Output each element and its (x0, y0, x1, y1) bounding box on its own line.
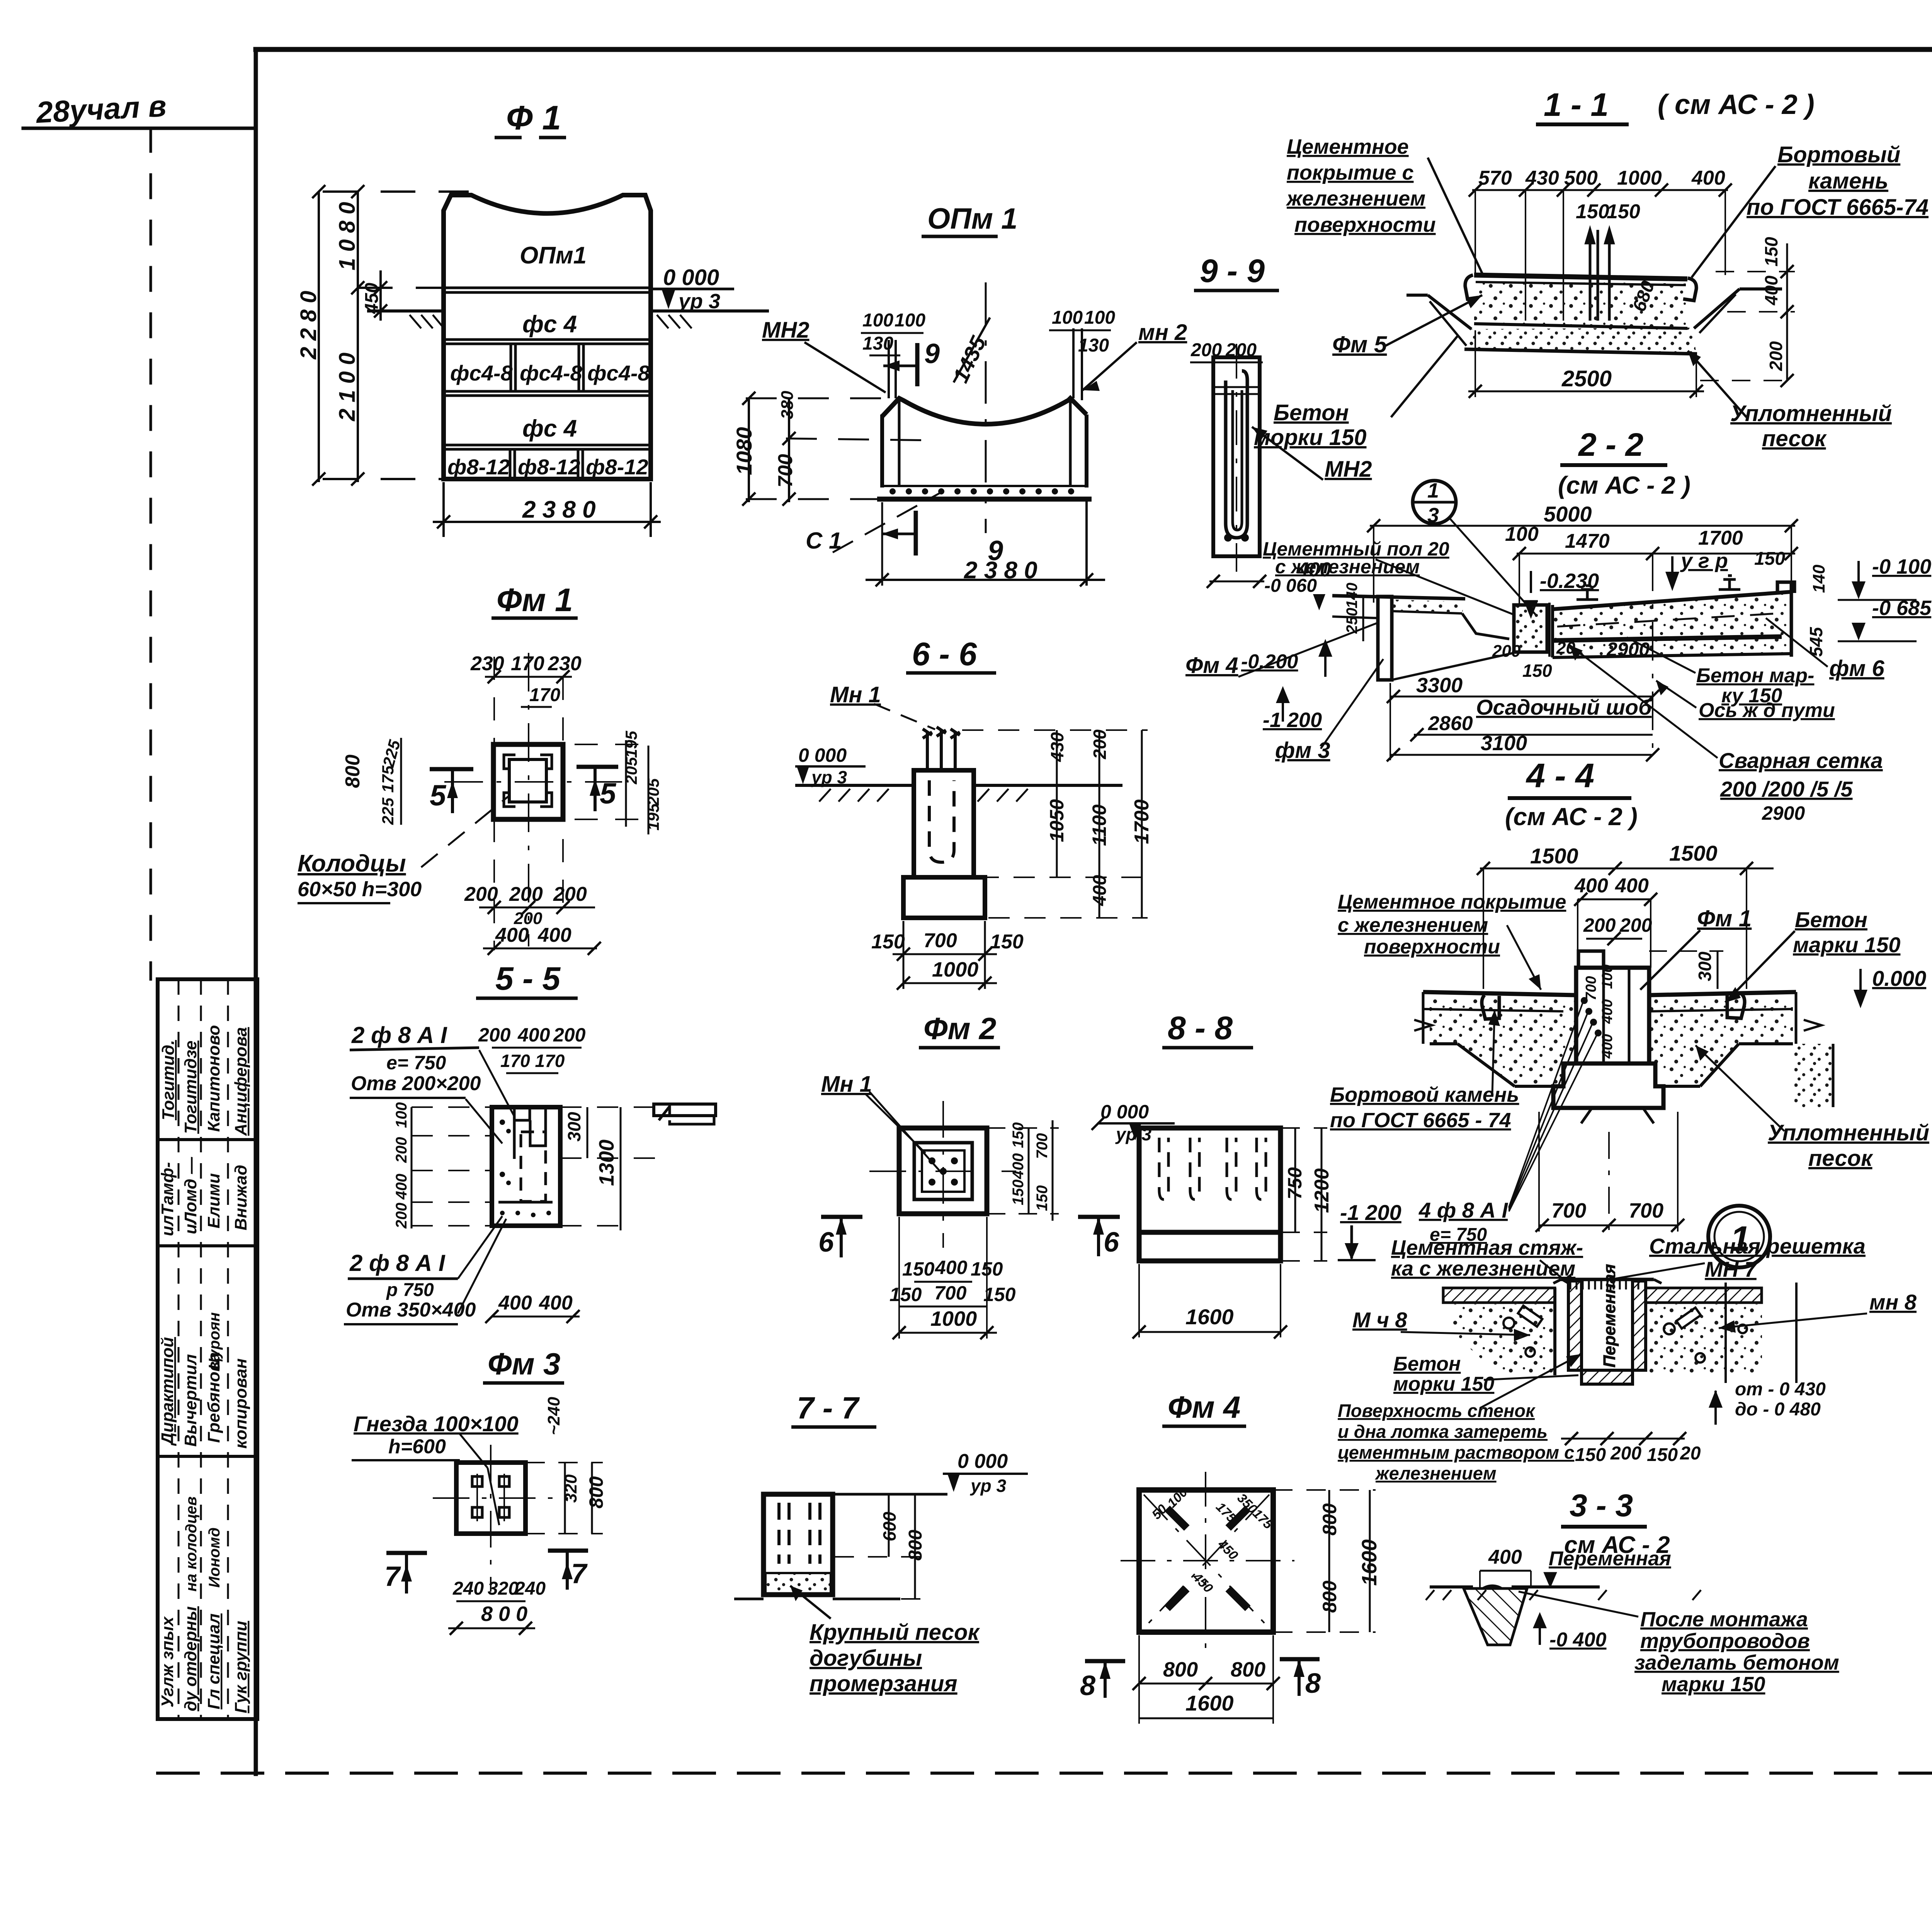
svg-text:до - 0 480: до - 0 480 (1735, 1399, 1821, 1420)
svg-text:400: 400 (393, 1174, 410, 1200)
Fm2 anchor dots (929, 1157, 958, 1186)
svg-text:Переменная: Переменная (1549, 1548, 1671, 1570)
svg-text:150: 150 (990, 931, 1024, 953)
Fm3 section mark 7 right (548, 1551, 588, 1590)
svg-text:Иономд: Иономд (206, 1527, 223, 1588)
svg-text:200: 200 (1766, 341, 1786, 371)
svg-text:Цементная стяж-: Цементная стяж- (1391, 1236, 1583, 1259)
svg-text:1080: 1080 (732, 427, 756, 475)
svg-text:Бетон: Бетон (1795, 907, 1867, 932)
Fm3 centerlines (433, 1445, 568, 1592)
svg-text:700: 700 (1034, 1133, 1051, 1159)
drawing F1 title (495, 99, 577, 138)
svg-text:9: 9 (924, 338, 940, 369)
drain detail label stalnaya reshetka MN7 (1611, 1234, 1866, 1281)
svg-text:1050: 1050 (1046, 799, 1068, 842)
svg-text:700: 700 (1551, 1199, 1586, 1222)
svg-text:Крупный песок: Крупный песок (810, 1620, 980, 1645)
svg-text:Уплотненный: Уплотненный (1768, 1120, 1929, 1145)
svg-text:195: 195 (644, 803, 662, 831)
svg-text:200: 200 (1190, 340, 1222, 360)
drawing Fm2 plan title (919, 1011, 1000, 1048)
svg-text:морки 150: морки 150 (1393, 1373, 1494, 1395)
svg-text:Мн 1: Мн 1 (830, 682, 881, 707)
svg-text:9 - 9: 9 - 9 (1200, 253, 1265, 289)
1-1 label Fm5 (1332, 295, 1482, 357)
svg-text:170: 170 (511, 652, 544, 675)
4-4 label cement pokrytie (1338, 891, 1566, 990)
svg-text:Уплотненный: Уплотненный (1730, 401, 1892, 426)
svg-text:5000: 5000 (1544, 502, 1592, 526)
svg-text:240: 240 (452, 1578, 484, 1599)
9-9 top dim 200 200 (1190, 340, 1263, 572)
svg-text:150: 150 (1010, 1179, 1027, 1205)
svg-text:100: 100 (393, 1102, 410, 1128)
F1 joint line 3 (444, 390, 651, 393)
svg-text:130: 130 (1078, 335, 1109, 356)
svg-text:8: 8 (1305, 1668, 1321, 1699)
svg-text:3 - 3: 3 - 3 (1570, 1488, 1633, 1523)
svg-text:450: 450 (1215, 1537, 1241, 1563)
svg-text:ф8-12: ф8-12 (518, 455, 580, 479)
svg-text:Тогитид.: Тогитид. (159, 1040, 178, 1120)
svg-text:Отв 200×200: Отв 200×200 (351, 1072, 481, 1095)
svg-text:1470: 1470 (1565, 530, 1610, 552)
2-2 dim 3100 (1387, 683, 1659, 761)
Fm1 plan bottom dims (464, 883, 601, 955)
F1 joint line 1 (444, 287, 651, 289)
svg-text:Гук группи: Гук группи (231, 1621, 250, 1713)
svg-text:400: 400 (1010, 1153, 1027, 1179)
svg-text:150: 150 (1010, 1122, 1027, 1148)
svg-text:400: 400 (1615, 875, 1649, 897)
svg-text:Ось ж д пути: Ось ж д пути (1699, 699, 1835, 722)
svg-text:800: 800 (1163, 1658, 1198, 1681)
svg-text:МН2: МН2 (762, 318, 809, 343)
stamp column rotated signatures (158, 1025, 276, 1713)
svg-text:400: 400 (1599, 999, 1616, 1024)
1-1 right dims 150 400 200 (1700, 237, 1795, 387)
svg-text:700: 700 (1629, 1199, 1663, 1222)
6-6 label MN1 (830, 682, 935, 729)
svg-text:ур 3: ур 3 (811, 767, 847, 787)
svg-text:1700: 1700 (1698, 527, 1743, 549)
1-1 rebar dowels (1586, 230, 1659, 321)
svg-text:200: 200 (393, 1137, 410, 1163)
1-1 label bortovy kamen (1692, 142, 1929, 277)
svg-text:3: 3 (1427, 504, 1439, 527)
svg-text:4 - 4: 4 - 4 (1526, 756, 1594, 795)
drain label beton marki 150 (1393, 1353, 1578, 1395)
svg-text:и дна лотка затереть: и дна лотка затереть (1338, 1421, 1548, 1442)
level mark -1.200 (1338, 1200, 1401, 1260)
svg-text:фм 6: фм 6 (1829, 656, 1884, 681)
svg-text:150: 150 (1647, 1445, 1678, 1465)
9-9 bottom dim 400 (1207, 559, 1331, 588)
svg-text:МН2: МН2 (1325, 457, 1372, 482)
OPm1 centerline (985, 282, 987, 533)
drawing 5-5 title (476, 960, 578, 998)
4-4 dim 300 (1649, 951, 1723, 989)
svg-text:1500: 1500 (1530, 844, 1578, 868)
4-4 level 0.000 (1854, 966, 1926, 1008)
Fm3 right rotated dims (526, 1396, 607, 1534)
svg-text:Капитоново: Капитоново (204, 1025, 223, 1132)
svg-text:170 170: 170 170 (500, 1051, 565, 1071)
2-2 level -0.230 (1524, 569, 1599, 619)
svg-text:с железнением: с железнением (1338, 914, 1488, 936)
svg-text:марки 150: марки 150 (1662, 1673, 1765, 1696)
svg-text:После монтажа: После монтажа (1640, 1608, 1808, 1631)
OPm1 label C1 (806, 491, 943, 554)
2-2 dim 3300 (1387, 674, 1659, 703)
OPm1 section cut 9 bottom (882, 511, 1003, 566)
svg-text:фм 3: фм 3 (1275, 738, 1330, 763)
2-2 level -0.100 (1838, 555, 1931, 600)
svg-text:200: 200 (1583, 914, 1616, 936)
svg-text:илТамф-: илТамф- (158, 1162, 177, 1236)
svg-text:2 ф 8 А I: 2 ф 8 А I (351, 1022, 447, 1048)
5-5 wall rebar dots (500, 1120, 551, 1217)
drawing Fm1 plan title (492, 582, 578, 618)
svg-text:Елими: Елими (204, 1173, 223, 1228)
svg-text:р 750: р 750 (386, 1280, 434, 1300)
svg-text:фс 4: фс 4 (522, 311, 577, 338)
OPm1 label MN2 left (762, 318, 886, 392)
8-8 block (1139, 1128, 1281, 1261)
svg-text:150: 150 (1522, 661, 1552, 681)
svg-text:-0 400: -0 400 (1549, 1629, 1607, 1651)
svg-text:е= 750: е= 750 (386, 1052, 446, 1074)
svg-text:песок: песок (1762, 426, 1827, 451)
left margin dashed vertical (150, 128, 152, 979)
svg-text:-1 200: -1 200 (1340, 1200, 1401, 1225)
svg-text:камень: камень (1808, 168, 1888, 194)
drawing 6-6 title (906, 636, 996, 673)
svg-text:1000: 1000 (930, 1307, 977, 1330)
left margin handwritten number 28 (34, 88, 167, 129)
svg-text:( см АС - 2 ): ( см АС - 2 ) (1658, 89, 1815, 120)
svg-text:иЛомд —: иЛомд — (181, 1157, 200, 1234)
svg-text:800: 800 (1231, 1658, 1265, 1681)
drain label poverhnost stenok (1338, 1354, 1582, 1483)
svg-text:6: 6 (1104, 1227, 1119, 1258)
drawing 4-4 title (1505, 756, 1638, 831)
svg-text:фс4-8: фс4-8 (587, 361, 650, 385)
svg-text:1700: 1700 (1131, 799, 1153, 844)
pipe detail level -0.400 (1533, 1612, 1607, 1651)
6-6 bottom dims (871, 921, 1024, 990)
svg-text:Переменная: Переменная (1600, 1264, 1619, 1368)
svg-text:28учал в: 28учал в (34, 88, 167, 129)
2-2 dims 100 1470 1700 (1505, 523, 1798, 605)
svg-text:700: 700 (774, 454, 797, 488)
svg-text:205: 205 (644, 778, 662, 806)
svg-text:200: 200 (1610, 1443, 1641, 1464)
drain concrete circles (1503, 1306, 1747, 1362)
pipe detail dims (1480, 1546, 1671, 1588)
svg-text:ур 3: ур 3 (970, 1476, 1006, 1496)
svg-text:400: 400 (1761, 275, 1781, 306)
Fm4 section mark 8 left (1080, 1661, 1125, 1701)
svg-text:200 /200 /5 /5: 200 /200 /5 /5 (1720, 777, 1853, 801)
Fm2 plan squares (899, 1128, 987, 1214)
OPm1 slab rebar dots (889, 488, 1074, 494)
svg-text:100: 100 (1052, 307, 1083, 328)
7-7 label krupny pesok (790, 1586, 980, 1696)
4-4 rebar dots in column (1581, 997, 1602, 1036)
svg-text:800: 800 (1319, 1503, 1340, 1536)
2-2 label Fm3 left (1275, 659, 1383, 763)
stamp column secondary names (183, 1312, 223, 1592)
svg-text:поверхности: поверхности (1364, 936, 1500, 958)
svg-text:7: 7 (384, 1561, 401, 1592)
Fm4 plan square (1139, 1490, 1273, 1632)
svg-text:400: 400 (498, 1292, 532, 1314)
svg-text:140: 140 (1810, 564, 1828, 593)
svg-text:1100: 1100 (1088, 804, 1110, 846)
Fm1 plan centerlines (444, 653, 653, 950)
Fm3 bottom dims (448, 1578, 546, 1635)
F1 block labels (447, 242, 650, 479)
OPm1 top dims 100 100 130 right (1049, 307, 1115, 356)
Fm3 label gnezda (352, 1412, 519, 1525)
svg-text:фс4-8: фс4-8 (520, 361, 582, 385)
2-2 osadochny shov joint block (1514, 603, 1549, 657)
svg-text:Стальная решетка: Стальная решетка (1649, 1234, 1866, 1258)
drawing 8-8 title (1162, 1010, 1253, 1048)
svg-text:1 - 1: 1 - 1 (1544, 87, 1609, 123)
svg-text:1435: 1435 (948, 332, 991, 386)
svg-text:заделать бетоном: заделать бетоном (1634, 1651, 1839, 1674)
2-2 railway slab Fm6 (1553, 582, 1794, 657)
F1 left dimension lines (312, 185, 469, 486)
Fm1 plan left rotated dims (342, 738, 404, 825)
svg-text:2 3 8 0: 2 3 8 0 (522, 496, 596, 523)
1-1 label cement coating (1286, 135, 1483, 275)
svg-text:150: 150 (1576, 200, 1609, 223)
stamp column frame (158, 979, 257, 1719)
svg-text:150: 150 (1034, 1185, 1051, 1211)
svg-text:(см АС - 2 ): (см АС - 2 ) (1558, 471, 1690, 499)
svg-text:150: 150 (983, 1284, 1016, 1305)
svg-text:~240: ~240 (544, 1396, 563, 1435)
svg-text:Поверхность стенок: Поверхность стенок (1338, 1400, 1536, 1421)
1-1 roadway body (1406, 275, 1782, 354)
svg-text:у г р: у г р (1680, 549, 1728, 573)
4-4 label uplotnenny pesok (1696, 1045, 1929, 1171)
4-4 top dims 1500 1500 (1477, 841, 1774, 989)
2-2 level -0.685 (1806, 596, 1932, 657)
svg-text:железнением: железнением (1374, 1463, 1497, 1483)
svg-text:Мн 1: Мн 1 (821, 1072, 872, 1097)
1-1 label uplotnenny pesok (1688, 351, 1892, 451)
svg-text:2 1 0 0: 2 1 0 0 (335, 353, 360, 421)
1-1 label beton marki 150 (1254, 336, 1458, 450)
1-1 top dims (1469, 167, 1732, 321)
svg-text:ф8-12: ф8-12 (447, 455, 510, 479)
Fm3 section mark 7 left (384, 1553, 427, 1594)
6-6 right dims (962, 729, 1153, 918)
svg-text:200: 200 (1225, 340, 1257, 360)
7-7 level mark 0.000 (835, 1450, 1028, 1496)
Fm2 bottom dims (889, 1217, 1016, 1339)
svg-text:Углж зпых: Углж зпых (158, 1616, 177, 1707)
svg-text:700: 700 (934, 1282, 967, 1304)
Fm1 plan label Kolodtsy (298, 797, 508, 903)
svg-text:500: 500 (1564, 167, 1598, 189)
Fm2 section mark 6 right (1078, 1217, 1120, 1258)
svg-text:225: 225 (379, 738, 404, 769)
svg-text:5 - 5: 5 - 5 (495, 960, 561, 997)
2-2 Fm3 wall left (1332, 596, 1514, 680)
Fm4 bottom dims (1133, 1635, 1280, 1724)
svg-text:-0 685: -0 685 (1872, 596, 1932, 620)
svg-text:100: 100 (1505, 523, 1539, 545)
svg-text:1600: 1600 (1358, 1539, 1381, 1586)
svg-text:1: 1 (1427, 479, 1439, 502)
svg-text:800: 800 (1319, 1580, 1340, 1613)
4-4 label bortovoy kamen (1330, 1010, 1519, 1132)
svg-text:Тогитидзе: Тогитидзе (181, 1041, 200, 1134)
svg-text:200: 200 (393, 1203, 410, 1229)
4-4 bottom dims 700 700 (1536, 1112, 1684, 1232)
drain detail label cement styazhka (1391, 1236, 1583, 1288)
6-6 ground line (795, 785, 1122, 802)
2-2 label os zhd puti (1656, 681, 1835, 722)
svg-text:7 - 7: 7 - 7 (797, 1391, 860, 1425)
svg-text:Гнезда 100×100: Гнезда 100×100 (354, 1412, 519, 1436)
svg-text:ф8-12: ф8-12 (586, 455, 648, 479)
detail callout circle 1/3 (1413, 479, 1536, 615)
4-4 label beton marki (1725, 907, 1900, 1002)
svg-text:Дирактипой: Дирактипой (158, 1337, 177, 1446)
2-2 rails (1577, 576, 1740, 600)
svg-text:320: 320 (488, 1578, 519, 1599)
svg-text:Фм 4: Фм 4 (1168, 1390, 1240, 1424)
svg-text:1300: 1300 (595, 1140, 618, 1186)
Fm1 plan square (493, 744, 563, 819)
7-7 column with sand base (734, 1494, 900, 1599)
drain detail label MN8 (1719, 1290, 1917, 1333)
2-2 label osadochny shov (1476, 695, 1652, 719)
4-4 dims 400 400 (1574, 875, 1657, 968)
svg-text:400: 400 (1599, 1034, 1616, 1059)
svg-text:0 000: 0 000 (798, 744, 847, 766)
sheet border bottom dashed (158, 1772, 1932, 1775)
F1 level mark 0.000 (651, 265, 734, 313)
svg-text:1200: 1200 (1311, 1168, 1333, 1213)
2-2 label Fm6 (1766, 618, 1884, 681)
5-5 bottom dims 400 400 (485, 1292, 580, 1323)
2-2 label beton marki 150 (1627, 637, 1814, 707)
9-9 rebar hairpin (1226, 371, 1247, 538)
svg-text:240: 240 (514, 1578, 546, 1599)
svg-text:0.000: 0.000 (1872, 966, 1926, 990)
svg-text:покрытие с: покрытие с (1287, 161, 1414, 184)
svg-text:Ф 1: Ф 1 (506, 99, 561, 137)
pipe detail label posle montazha (1519, 1592, 1839, 1696)
svg-text:450: 450 (362, 283, 382, 314)
F1 block dividers row f8-12 (509, 449, 512, 479)
4-4 foundation body (1414, 951, 1833, 1123)
svg-text:Фм 1: Фм 1 (1697, 905, 1752, 931)
9-9 label MN2 (1252, 427, 1372, 482)
svg-text:М ч 8: М ч 8 (1352, 1308, 1407, 1332)
svg-text:6 - 6: 6 - 6 (912, 636, 977, 672)
svg-text:100: 100 (1084, 307, 1115, 328)
9-9 wall section (1213, 357, 1260, 556)
svg-text:с железнением: с железнением (1275, 556, 1420, 578)
svg-text:ОПм1: ОПм1 (520, 242, 587, 269)
svg-text:60×50 h=300: 60×50 h=300 (298, 878, 422, 901)
5-5 dashed tie lines left (412, 1107, 492, 1226)
svg-text:-0 060: -0 060 (1264, 576, 1317, 596)
svg-text:5: 5 (430, 779, 447, 812)
svg-text:2 2 8 0: 2 2 8 0 (296, 291, 321, 360)
svg-text:Фм 5: Фм 5 (1332, 331, 1388, 357)
5-5 label 2f8AI top (350, 1022, 514, 1143)
svg-text:Бетон: Бетон (1274, 400, 1349, 425)
Fm4 right rotated dims (1273, 1490, 1381, 1632)
OPm1 saddle section outline (877, 328, 1092, 586)
svg-text:песок: песок (1808, 1146, 1873, 1171)
6-6 level mark 0.000 (795, 744, 866, 787)
drain level ot-0430 do-0480 (1709, 1379, 1826, 1425)
svg-text:150: 150 (1575, 1445, 1606, 1465)
svg-text:трубопроводов: трубопроводов (1640, 1629, 1810, 1653)
svg-text:150: 150 (871, 931, 905, 953)
Fm4 section mark 8 right (1280, 1659, 1321, 1699)
svg-text:1600: 1600 (1185, 1305, 1234, 1329)
svg-text:Гл специал: Гл специал (204, 1614, 223, 1709)
svg-text:4 ф 8 А I: 4 ф 8 А I (1418, 1198, 1509, 1222)
2-2 centerline axis (1652, 552, 1653, 757)
5-5 wall elevation (492, 1107, 560, 1226)
2-2 UGR mark (1665, 549, 1828, 593)
drain channel drawing (1443, 1264, 1796, 1384)
svg-text:от - 0 430: от - 0 430 (1735, 1379, 1826, 1400)
2-2 dim 5000 (1367, 502, 1798, 603)
svg-text:400: 400 (1488, 1546, 1522, 1568)
svg-text:430: 430 (1047, 732, 1067, 762)
svg-text:1 0 8 0: 1 0 8 0 (335, 202, 360, 270)
svg-text:Осадочный шоб: Осадочный шоб (1476, 695, 1652, 719)
OPm1 bottom slab (882, 485, 1087, 487)
svg-text:Фм 1: Фм 1 (497, 582, 573, 618)
svg-text:200: 200 (553, 1024, 586, 1046)
pipe detail drawing (1426, 1572, 1701, 1645)
svg-text:170: 170 (529, 685, 560, 705)
svg-text:1500: 1500 (1669, 841, 1718, 865)
svg-text:фс4-8: фс4-8 (450, 361, 513, 385)
5-5 embedded plate sketch right (654, 1104, 716, 1124)
svg-text:Фм 4: Фм 4 (1185, 653, 1238, 678)
svg-text:Цементное: Цементное (1287, 135, 1409, 158)
svg-text:копирован: копирован (231, 1358, 250, 1449)
svg-text:205: 205 (622, 757, 640, 785)
svg-text:Фм 2: Фм 2 (923, 1011, 996, 1046)
Fm1 plan right rotated dims (622, 731, 662, 834)
svg-text:Бортовой камень: Бортовой камень (1330, 1083, 1519, 1106)
4-4 label 4f8AI (1418, 1003, 1597, 1245)
svg-text:570: 570 (1478, 167, 1512, 189)
sheet border left (254, 49, 258, 1774)
svg-text:800: 800 (342, 754, 364, 788)
Fm4 small dims (1149, 1485, 1276, 1596)
svg-text:Бортовый: Бортовый (1777, 142, 1900, 167)
svg-text:2 3 8 0: 2 3 8 0 (964, 557, 1037, 584)
